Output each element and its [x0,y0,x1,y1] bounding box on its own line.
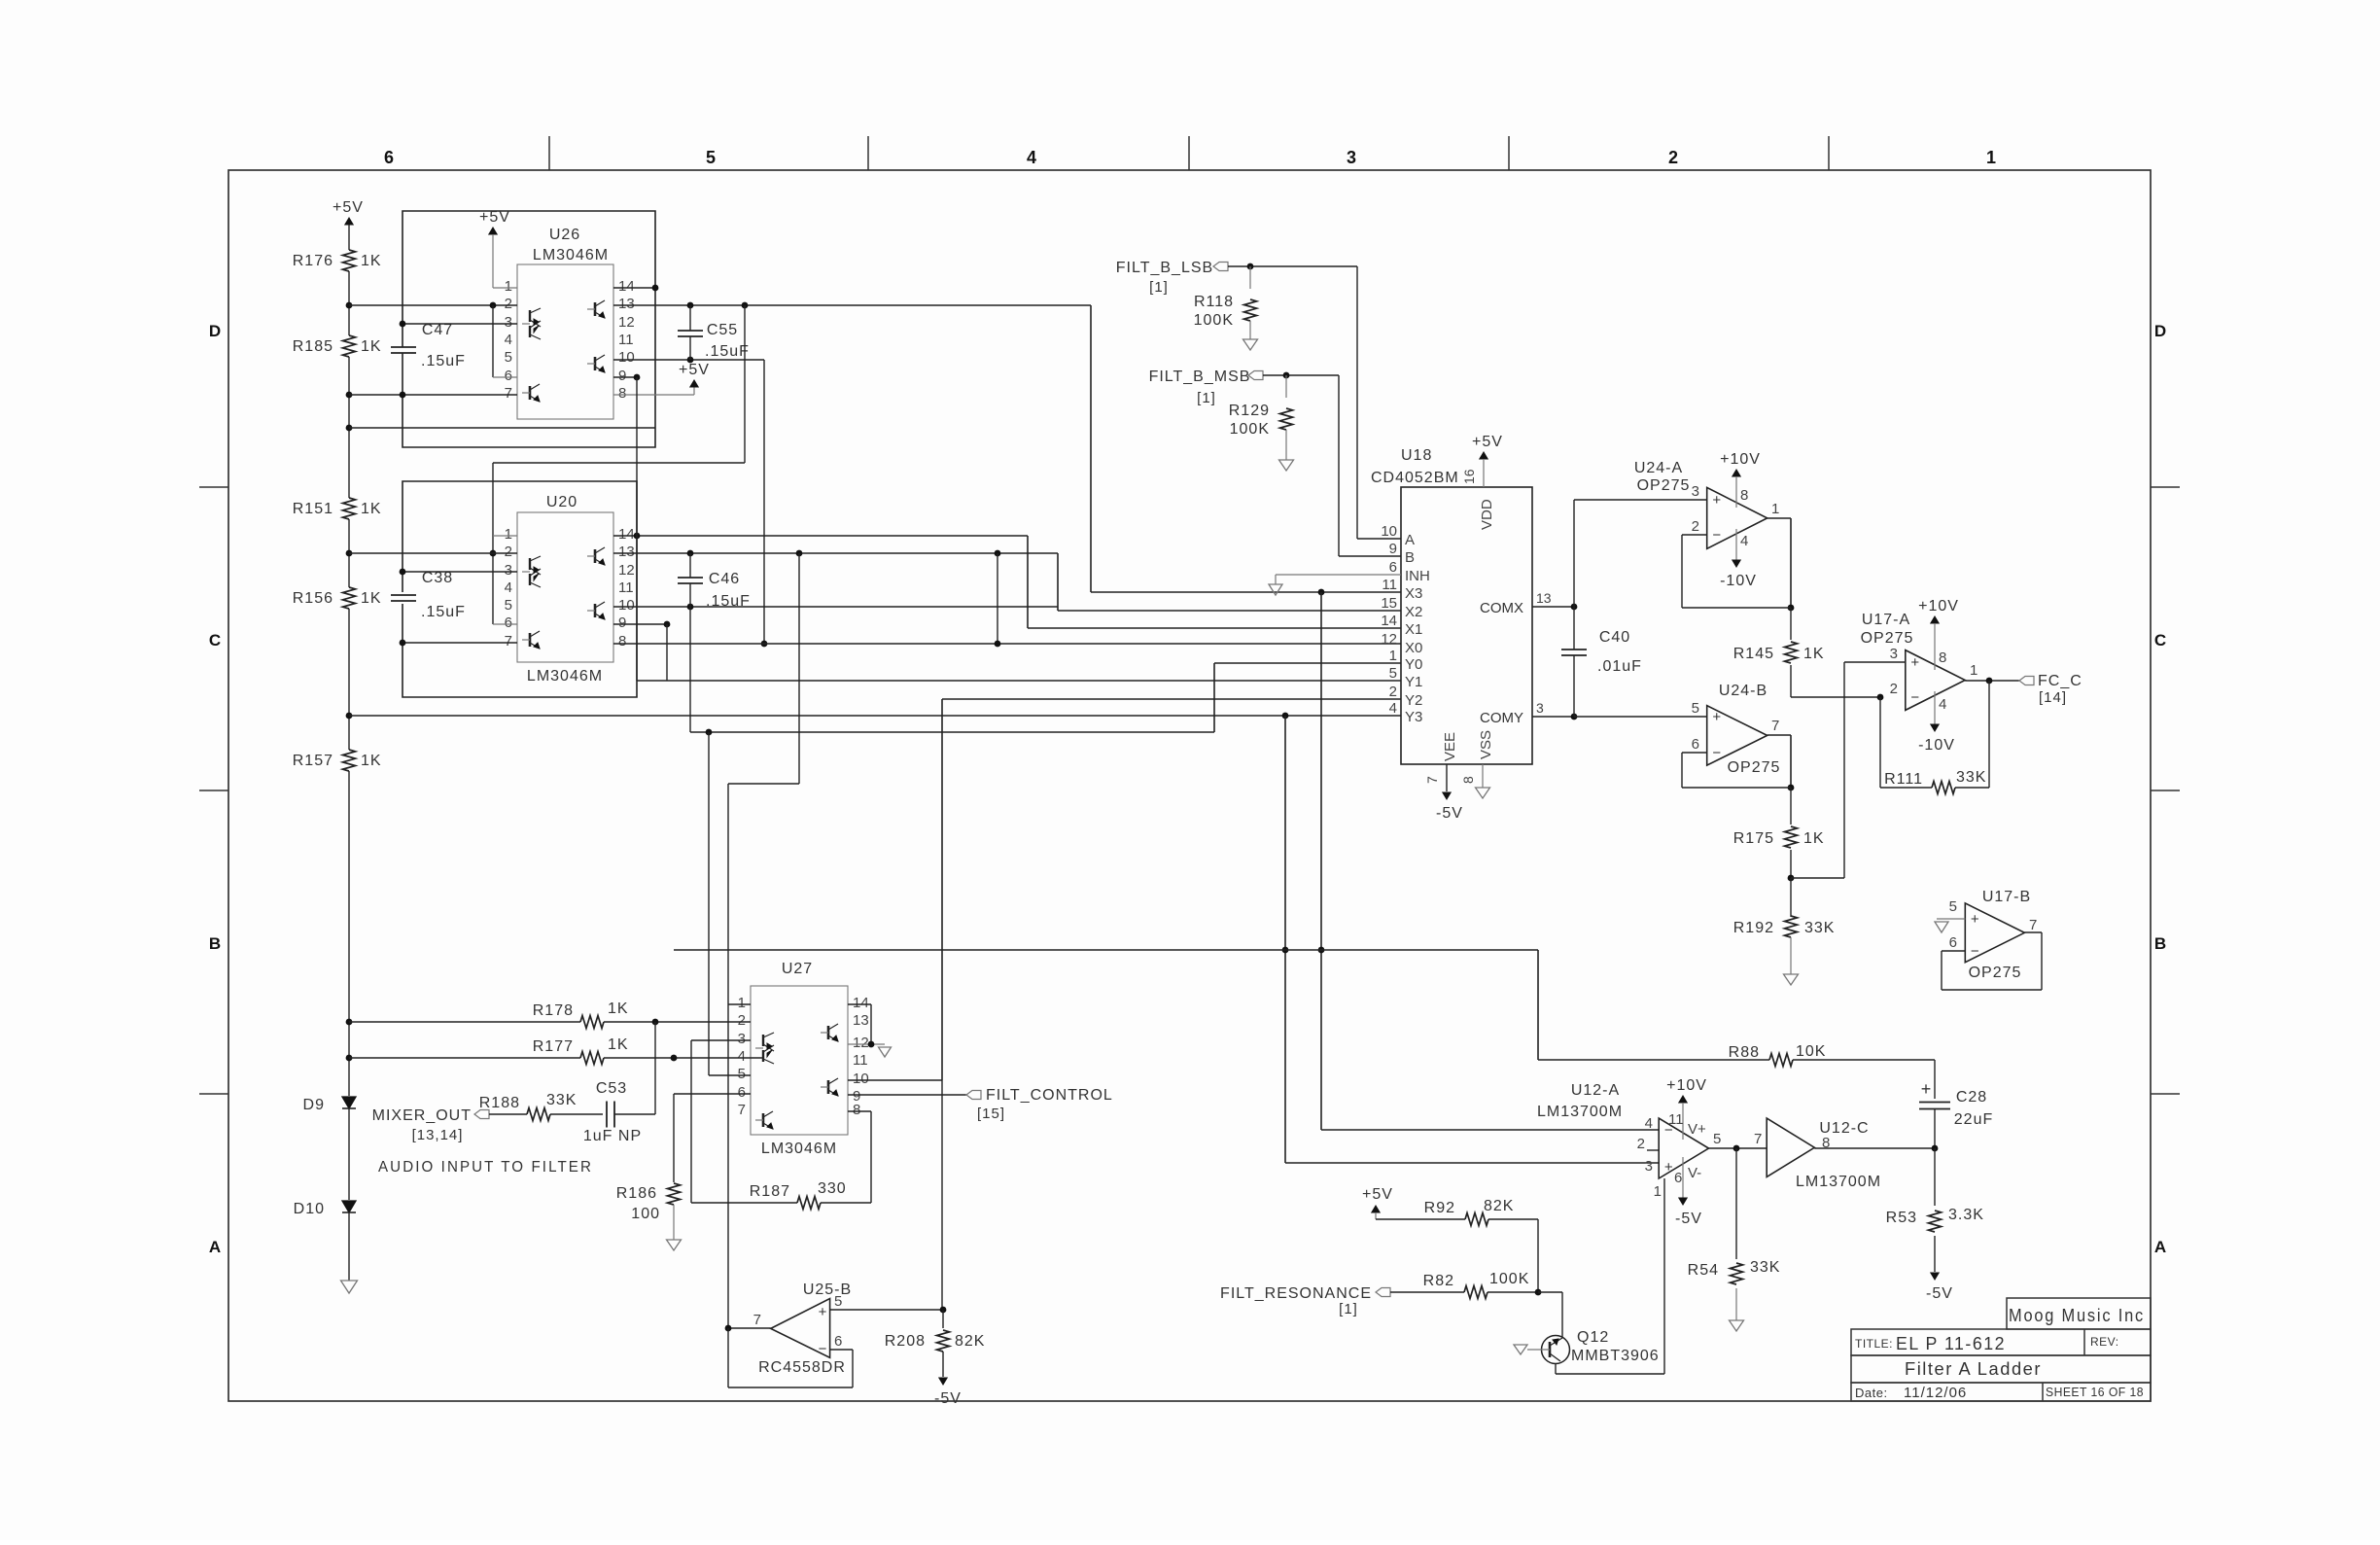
svg-text:1K: 1K [361,253,382,269]
svg-text:1: 1 [505,278,512,295]
svg-text:3: 3 [738,1031,746,1047]
svg-text:10K: 10K [1796,1043,1826,1060]
svg-text:+10V: +10V [1918,598,1959,614]
svg-text:R54: R54 [1688,1262,1719,1279]
svg-text:LM3046M: LM3046M [527,668,603,685]
svg-text:11: 11 [618,332,634,348]
svg-text:[14]: [14] [2039,689,2067,706]
svg-text:33K: 33K [546,1092,577,1108]
diode D9 [303,1097,356,1113]
wire R157-D9 [348,771,350,1096]
resistor R151 1K [293,498,382,519]
svg-text:[1]: [1] [1197,390,1216,406]
wire R176-R185 [348,271,350,335]
svg-text:3: 3 [1347,148,1356,167]
svg-text:LM3046M: LM3046M [761,1141,837,1157]
diode D10 [294,1201,356,1217]
svg-text:13: 13 [1536,590,1552,606]
ground bottom of chain [341,1281,358,1293]
svg-text:13: 13 [618,544,635,560]
wire row y440 [349,427,655,429]
svg-text:[1]: [1] [1339,1301,1358,1317]
wire U27 pin1 [728,1003,751,1005]
svg-text:R185: R185 [293,338,333,355]
wire U26 pin3 row [400,321,517,328]
svg-text:C40: C40 [1599,629,1630,646]
svg-text:2: 2 [738,1012,746,1029]
svg-text:.01uF: .01uF [1597,658,1642,675]
svg-text:+5V: +5V [679,362,710,378]
U27 pin numbers [738,995,869,1118]
svg-text:1K: 1K [1803,646,1825,662]
svg-text:A: A [209,1238,221,1256]
resistor R187 330 [691,1180,871,1210]
svg-text:−: − [1712,745,1721,761]
svg-text:INH: INH [1405,568,1430,584]
U18 COMY pin3 [1480,700,1577,726]
svg-text:+: + [1910,654,1919,671]
svg-text:12: 12 [618,562,635,579]
svg-text:FC_C: FC_C [2038,673,2082,689]
svg-text:EL P 11-612: EL P 11-612 [1896,1334,2006,1353]
svg-text:.15uF: .15uF [705,343,750,360]
svg-text:X2: X2 [1405,604,1422,620]
wire U27 pin14-12 ground [848,1004,892,1057]
svg-text:D: D [2154,322,2166,340]
svg-text:.15uF: .15uF [706,593,751,610]
resistor R129 100K [1229,375,1293,460]
svg-text:U18: U18 [1401,447,1432,464]
svg-text:13: 13 [618,296,635,312]
svg-text:3: 3 [1890,646,1898,662]
svg-text:OP275: OP275 [1969,965,2022,981]
svg-text:2: 2 [1668,148,1678,167]
capacitor C53 1uF NP [583,1080,642,1144]
svg-text:6: 6 [1389,559,1397,576]
svg-text:+5V: +5V [1472,434,1503,450]
ground under R118 [1243,339,1258,350]
svg-text:−: − [819,1341,827,1357]
wire riser to U27 pin5 [708,732,710,1075]
svg-text:U17-A: U17-A [1862,612,1910,628]
svg-text:9: 9 [618,614,626,631]
svg-text:4: 4 [505,579,512,596]
svg-text:14: 14 [853,995,869,1011]
resistor R145 1K [1733,608,1825,697]
wire riser Y3 to U12A pin3 [1282,716,1659,1163]
svg-text:FILT_B_LSB: FILT_B_LSB [1116,260,1213,276]
svg-text:RC4558DR: RC4558DR [758,1359,846,1376]
wire R151-R156 [348,519,350,587]
wire D10-ground [348,1212,350,1281]
ground under R129 [1279,460,1294,471]
svg-text:15: 15 [1381,595,1397,612]
wire R185-R151 [348,357,350,498]
IC U27 body LM3046M [751,986,848,1135]
wire U20 pin14 row to X1 riser [613,533,1028,540]
svg-text:1K: 1K [608,1001,629,1017]
wire U27 pin9 FILT_CONTROL [848,1094,966,1096]
svg-text:R186: R186 [616,1185,657,1202]
wire riser to U27 pin1 and U25B out [727,784,729,1328]
op-amp U17-A OP275 [1906,650,1965,711]
svg-text:V-: V- [1688,1165,1701,1181]
U26 labels [533,227,609,263]
svg-text:R178: R178 [533,1002,574,1019]
svg-text:VSS: VSS [1478,730,1494,759]
svg-text:R188: R188 [479,1095,520,1111]
wire U27 pin6 to R186 [674,1094,751,1182]
svg-text:R88: R88 [1729,1044,1760,1061]
resistor R176 1K [293,250,382,271]
svg-text:22uF: 22uF [1954,1111,1993,1128]
wire COMX to U24A pin3 [1574,500,1706,607]
resistor R192 33K [1733,878,1836,974]
U20 internal transistors [522,547,605,649]
wire R82 junction to Q12 [1538,1292,1562,1337]
svg-text:FILT_RESONANCE: FILT_RESONANCE [1220,1285,1372,1302]
svg-text:3: 3 [1536,700,1544,716]
wire U20 pin7 row [400,640,517,647]
wire row y753 [690,607,1214,735]
wire riser U26p9 to Y1 [636,377,638,681]
svg-text:14: 14 [618,278,635,295]
capacitor C38 .15uF [391,570,466,620]
resistor R53 3.3K [1886,1148,1984,1272]
power +5V R92 [1362,1186,1465,1219]
U17-A -10V [1918,691,1955,754]
svg-text:8: 8 [853,1102,860,1118]
svg-text:14: 14 [618,526,635,543]
wire U27 pin3 to R187 [691,1040,751,1203]
wire U24-A output and feedback [1682,518,1794,611]
resistor R177 1K [349,1036,764,1065]
wire X2 net [1058,553,1401,611]
svg-text:5: 5 [505,597,512,614]
resistor R111 33K label [1884,769,1986,788]
svg-text:C53: C53 [596,1080,627,1097]
svg-text:2: 2 [1389,684,1397,700]
svg-text:−: − [1910,689,1919,706]
svg-text:100: 100 [631,1206,660,1222]
svg-text:+: + [1971,911,1979,928]
svg-text:16: 16 [1461,469,1477,484]
svg-text:U20: U20 [546,494,577,510]
svg-text:R208: R208 [885,1333,926,1350]
svg-text:6: 6 [1692,736,1699,753]
wire row y476 [493,305,745,463]
wire R145 to U17A pin2 [1791,694,1883,701]
svg-text:2: 2 [1692,518,1699,535]
svg-text:8: 8 [618,385,626,402]
wire U17-B feedback [1942,932,2042,990]
svg-text:8: 8 [618,633,626,650]
svg-text:5: 5 [505,349,512,366]
svg-text:LM13700M: LM13700M [1537,1104,1623,1120]
wire COMY to U24B pin5 [1574,716,1706,718]
wire U25-B output [725,1325,771,1332]
U24-A -10V [1720,529,1757,589]
ground under R186 [667,1240,682,1250]
svg-text:11: 11 [1668,1111,1684,1128]
zone column ticks top [549,136,1829,170]
wire FILT_B_LSB to A [1228,263,1401,539]
op-amp U24-A OP275 [1634,460,1780,548]
wire Y1 net [637,680,1401,682]
resistor R88 10K [1729,1043,1827,1067]
wire U26 pin14 row [613,285,658,292]
svg-text:8: 8 [1460,776,1476,784]
wire Y2 riser [941,699,943,1080]
power +5V U26 pin1 [479,209,517,288]
svg-text:100K: 100K [1489,1271,1529,1287]
svg-text:R187: R187 [750,1183,790,1200]
resistor R185 1K [293,335,382,357]
wire U26 pin9 row [613,374,640,381]
wire U25-B feedback [728,1328,853,1387]
wire Y0 net [1214,663,1401,732]
svg-text:LM13700M: LM13700M [1796,1174,1881,1190]
svg-text:U24-B: U24-B [1719,683,1767,699]
svg-text:+5V: +5V [479,209,510,226]
ground INH [1269,575,1401,595]
svg-text:6: 6 [1949,934,1957,951]
svg-text:6: 6 [834,1333,842,1350]
svg-text:R111: R111 [1884,771,1923,788]
svg-text:2: 2 [1637,1136,1645,1152]
zone column numbers [384,148,1996,167]
svg-text:+10V: +10V [1666,1077,1707,1094]
svg-text:-5V: -5V [1436,805,1463,822]
svg-text:OP275: OP275 [1728,759,1781,776]
svg-text:1: 1 [505,526,512,543]
svg-text:11: 11 [1382,577,1397,593]
svg-text:1: 1 [1654,1183,1662,1200]
svg-text:1: 1 [1986,148,1996,167]
svg-text:Y2: Y2 [1405,692,1422,709]
svg-text:C: C [209,631,221,650]
transistor array U20 outer box [402,481,637,697]
svg-text:−: − [1712,527,1721,544]
U17-B labels [1949,889,2038,981]
svg-text:1: 1 [738,995,746,1011]
title block [1851,1298,2151,1401]
svg-text:+: + [1664,1159,1673,1176]
svg-text:R118: R118 [1194,294,1234,310]
resistor R82 100K [1390,1271,1541,1299]
svg-text:4: 4 [505,332,512,348]
svg-text:7: 7 [505,385,512,402]
U26 pin numbers [505,278,635,402]
svg-text:11: 11 [853,1052,868,1069]
svg-text:[15]: [15] [977,1106,1005,1122]
svg-text:U17-B: U17-B [1982,889,2031,905]
svg-text:+: + [1712,709,1721,725]
U26 internal transistors [522,300,605,402]
U18 VEE -5V [1424,732,1463,822]
svg-text:14: 14 [1381,613,1397,629]
svg-text:3: 3 [1692,483,1699,500]
svg-text:Q12: Q12 [1577,1329,1609,1346]
wire U20 pin3 row [400,569,517,576]
svg-text:A: A [2154,1238,2166,1256]
wire X3 net [1091,305,1401,595]
wire U27 pin10 to U25B [848,1080,942,1310]
svg-text:11: 11 [618,579,634,596]
wire R156-R157 [348,609,350,750]
U17-B pin5 ground [1935,919,1965,932]
border frame [228,170,2151,1401]
svg-text:4: 4 [1645,1115,1653,1132]
U12-A V- -5V [1674,1157,1702,1227]
svg-text:4: 4 [1389,700,1397,717]
svg-text:12: 12 [1381,631,1397,648]
svg-text:330: 330 [818,1180,847,1197]
svg-text:+10V: +10V [1720,451,1761,468]
svg-text:7: 7 [753,1312,761,1328]
svg-text:6: 6 [738,1084,746,1101]
U17-A labels [1861,612,1978,697]
svg-text:D9: D9 [303,1097,325,1113]
net label FILT_B_MSB [1149,369,1263,406]
svg-text:TITLE:: TITLE: [1855,1337,1893,1351]
zone row letters [209,322,2166,1256]
svg-text:4: 4 [1740,533,1748,549]
svg-text:5: 5 [1389,665,1397,682]
svg-text:COMX: COMX [1480,600,1523,616]
wire U26 pin7 row [349,392,517,399]
svg-text:R177: R177 [533,1038,574,1055]
svg-text:12: 12 [618,314,635,331]
svg-text:C: C [2154,631,2166,650]
U12-C labels [1796,1120,1881,1190]
resistor R118 100K [1194,266,1257,339]
svg-text:-5V: -5V [1926,1285,1953,1302]
U24-A +10V [1720,451,1761,508]
svg-text:7: 7 [505,633,512,650]
svg-text:AUDIO INPUT TO FILTER: AUDIO INPUT TO FILTER [378,1159,593,1176]
svg-text:COMY: COMY [1480,710,1523,726]
svg-text:+: + [1921,1079,1932,1099]
op-amp U17-B OP275 [1965,903,2024,963]
op-amp U25-B RC4558DR [771,1299,830,1358]
svg-text:−: − [1971,943,1979,960]
svg-text:R92: R92 [1424,1200,1455,1216]
wire U17-A output to FC_C [1965,678,2019,685]
svg-text:U12-A: U12-A [1571,1082,1620,1099]
svg-text:D10: D10 [294,1201,325,1217]
U12-A labels [1537,1082,1662,1200]
wire U12-A output [1709,1131,1767,1151]
wire U20 pin2 row [349,552,517,554]
capacitor C46 .15uF [678,553,751,610]
svg-text:Date:: Date: [1855,1386,1888,1400]
svg-text:82K: 82K [955,1333,985,1350]
wire U26 pin2 row [349,302,517,309]
svg-text:82K: 82K [1484,1198,1514,1214]
op-amp U12-A LM13700M [1659,1118,1708,1178]
svg-text:LM3046M: LM3046M [533,247,609,263]
svg-text:-5V: -5V [934,1390,962,1407]
wire C53 to R178 junction [614,1022,655,1114]
svg-text:R157: R157 [293,753,333,769]
svg-text:1: 1 [1771,501,1779,517]
svg-text:.15uF: .15uF [421,353,466,369]
op-amp U12-C LM13700M [1767,1118,1814,1176]
svg-text:7: 7 [738,1102,746,1118]
wire U26 pin10 row [613,357,767,648]
IC U18 CD4052BM box [1401,487,1532,764]
wire Y3 net [349,713,1401,720]
svg-text:R53: R53 [1886,1210,1917,1226]
wire R88 net from U27 to C28 [674,950,1935,1060]
wire U26 pin2-pin6 link [493,305,517,377]
svg-text:2: 2 [505,544,512,560]
svg-text:1K: 1K [1803,830,1825,847]
capacitor C40 .01uF [1561,607,1642,717]
svg-text:CD4052BM: CD4052BM [1371,470,1459,486]
wire X1 net [1028,536,1401,628]
svg-text:5: 5 [834,1293,842,1310]
wire U26 pin8 +5V [613,362,710,395]
svg-text:9: 9 [618,368,626,384]
resistor R92 82K [1424,1198,1538,1292]
svg-text:2: 2 [505,296,512,312]
svg-text:3: 3 [505,314,512,331]
U18 COMX pin13 [1480,590,1577,616]
ground under R192 [1784,974,1799,985]
svg-text:8: 8 [1939,650,1946,666]
svg-text:5: 5 [706,148,716,167]
svg-text:+: + [1712,492,1721,509]
svg-text:5: 5 [1949,898,1957,915]
svg-text:4: 4 [1939,696,1946,713]
svg-text:4: 4 [1027,148,1036,167]
junction dots on chain [346,302,353,1062]
wire U20 pin13 row [613,550,1058,784]
svg-text:X3: X3 [1405,585,1422,602]
wire U20 pin10 row [613,604,1058,611]
svg-text:.15uF: .15uF [421,604,466,620]
svg-text:Moog Music Inc: Moog Music Inc [2009,1306,2145,1325]
wire U20 pin9 row [613,621,670,628]
U12-A pin2 stub [1647,1149,1659,1151]
wire R175 junction to U17A pin3 [1788,662,1905,881]
U17-A +10V [1918,598,1959,670]
svg-text:9: 9 [1389,541,1397,557]
svg-text:Y3: Y3 [1405,709,1422,725]
svg-text:C28: C28 [1956,1089,1987,1106]
IC U26 body LM3046M [517,264,613,419]
wire U17-A feedback R111 [1880,681,1989,794]
U20 labels [527,494,603,685]
capacitor C47 .15uF [391,322,466,369]
title block text [1855,1306,2145,1401]
svg-text:R192: R192 [1733,920,1774,936]
svg-text:D: D [209,322,221,340]
svg-text:1: 1 [1970,662,1977,679]
svg-text:5: 5 [1692,700,1699,717]
svg-text:-5V: -5V [1675,1211,1702,1227]
svg-text:1K: 1K [361,753,382,769]
capacitor C55 .15uF [678,305,750,360]
svg-text:1: 1 [1389,648,1397,664]
svg-text:VDD: VDD [1479,499,1495,530]
svg-text:1uF NP: 1uF NP [583,1128,642,1144]
svg-text:SHEET 16 OF 18: SHEET 16 OF 18 [2046,1385,2144,1399]
wire riser U20p9 to Y1 [666,624,668,681]
svg-text:C55: C55 [707,322,738,338]
